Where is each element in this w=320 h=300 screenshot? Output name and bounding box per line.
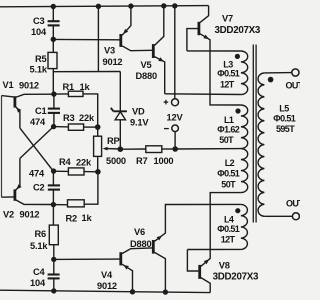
svg-text:5.1k: 5.1k <box>30 65 48 75</box>
wire: node F to V4 base <box>54 258 120 260</box>
node: L5 phase dot <box>268 77 274 83</box>
svg-text:Φ0.51: Φ0.51 <box>217 169 239 179</box>
wire: node A to V3 base <box>53 38 119 40</box>
svg-text:5.1k: 5.1k <box>30 241 48 251</box>
svg-text:VD: VD <box>132 107 145 117</box>
svg-text:OUT: OUT <box>286 199 300 209</box>
capacitor C1 <box>48 94 60 127</box>
wire: L5 bottom lead <box>264 215 292 217</box>
terminal: battery + <box>172 99 179 106</box>
node H: R4/R2/RP junction <box>95 169 101 175</box>
wire: top rail tap to R5/VD line <box>97 6 99 71</box>
node G: R1/R3/RP junction <box>95 124 101 130</box>
wire: battery minus lead <box>174 132 176 149</box>
svg-text:104: 104 <box>31 27 47 37</box>
node: junction dots on bottom rail <box>51 288 168 295</box>
svg-text:Φ0.51: Φ0.51 <box>273 113 295 123</box>
svg-text:5000: 5000 <box>106 156 126 166</box>
wire: battery plus lead from top rail <box>174 6 176 99</box>
resistor R7 <box>120 146 175 153</box>
node D: C2 top / R4 junction <box>51 168 56 173</box>
node B: V1 collector / C1 / R1 junction <box>51 91 56 96</box>
node: junction dots on top rail <box>51 3 178 9</box>
svg-text:V1: V1 <box>3 80 14 90</box>
node E: V2 collector / R2 / R6 junction <box>51 202 56 207</box>
winding L3 <box>241 51 248 95</box>
svg-text:9012: 9012 <box>103 57 123 67</box>
svg-text:474: 474 <box>30 117 46 127</box>
svg-text:RP: RP <box>107 136 120 146</box>
wire: V8 base loop / L4 bottom line <box>187 248 241 250</box>
svg-text:3DD207X3: 3DD207X3 <box>213 272 259 283</box>
svg-text:V8: V8 <box>219 260 230 270</box>
node A: C3 bottom / V3 base junction <box>51 37 56 42</box>
wire: supply rail to L3 bottom <box>165 93 241 96</box>
svg-text:C4: C4 <box>33 267 46 277</box>
wire: R5 node to zener VD <box>53 71 120 73</box>
svg-text:V7: V7 <box>222 14 233 24</box>
resistor R3 <box>54 124 98 130</box>
transistor V6 <box>153 204 241 292</box>
resistor R6 <box>49 205 58 260</box>
node: L1 phase dot <box>235 108 240 113</box>
svg-text:D880: D880 <box>130 239 151 249</box>
transistor V2 <box>2 158 53 204</box>
svg-text:OUT: OUT <box>286 80 301 90</box>
transistor V8 <box>187 193 241 293</box>
wire: centre tap to L1/L2 junction <box>175 148 241 150</box>
transistor V3 <box>121 6 152 51</box>
svg-text:L4: L4 <box>224 214 234 224</box>
svg-text:R5: R5 <box>35 54 47 64</box>
svg-text:50T: 50T <box>221 179 236 189</box>
svg-text:474: 474 <box>29 169 45 179</box>
svg-text:R1: R1 <box>63 82 75 92</box>
node: L3 phase dot <box>235 54 240 59</box>
terminal: battery - <box>172 125 179 132</box>
wire: left base bus <box>1 96 3 198</box>
capacitor C3 <box>48 7 60 40</box>
wire: top supply rail <box>0 6 209 7</box>
winding L5 <box>258 73 264 216</box>
resistor R4 <box>54 168 98 175</box>
svg-text:R2: R2 <box>66 214 78 224</box>
svg-text:3DD207X3: 3DD207X3 <box>215 25 261 36</box>
symbol: minus sign <box>164 128 169 130</box>
svg-text:9012: 9012 <box>19 81 39 91</box>
wire: cross-coupling slant V2 emitter to node C <box>20 127 53 158</box>
svg-text:50T: 50T <box>219 135 234 145</box>
resistor R1 <box>54 91 98 127</box>
svg-text:9012: 9012 <box>20 210 40 220</box>
wire: cross-coupling slant V1 emitter to node D <box>20 128 53 171</box>
transistor V1 <box>2 94 53 128</box>
svg-text:C3: C3 <box>33 16 45 26</box>
svg-text:V4: V4 <box>101 270 113 280</box>
node J: R7 / battery minus / centre-tap junction <box>172 146 178 152</box>
svg-text:C1: C1 <box>35 106 47 116</box>
svg-text:1000: 1000 <box>154 156 174 166</box>
svg-text:595T: 595T <box>276 124 295 134</box>
svg-text:9.1V: 9.1V <box>130 118 149 128</box>
svg-text:104: 104 <box>30 278 46 288</box>
winding L2 <box>241 149 248 193</box>
svg-text:V3: V3 <box>104 46 115 56</box>
svg-text:Φ0.51: Φ0.51 <box>217 69 239 79</box>
svg-text:R4: R4 <box>59 157 72 167</box>
winding L1 <box>241 105 248 149</box>
terminal: OUT top <box>292 69 299 76</box>
svg-text:V6: V6 <box>134 227 145 237</box>
svg-text:L5: L5 <box>279 103 289 113</box>
zener diode VD <box>111 72 127 150</box>
svg-text:V5: V5 <box>141 60 152 70</box>
svg-text:D880: D880 <box>136 71 157 81</box>
transistor V5 <box>153 6 164 94</box>
svg-text:22k: 22k <box>76 158 92 168</box>
svg-text:R7: R7 <box>136 156 148 166</box>
node F: R6 / C4 / V4 base junction <box>51 257 56 262</box>
transistor V7 <box>187 6 241 105</box>
svg-text:Φ0.51: Φ0.51 <box>217 224 239 234</box>
transformer core <box>253 45 256 223</box>
node I: VD / RP wiper / R7 junction <box>118 146 124 152</box>
svg-text:1k: 1k <box>80 82 91 92</box>
svg-text:R6: R6 <box>35 229 47 239</box>
svg-text:9012: 9012 <box>97 281 117 291</box>
node C: C1 bottom / R3 junction <box>51 124 56 129</box>
wire: bottom rail <box>0 290 210 292</box>
svg-text:L2: L2 <box>225 158 235 168</box>
svg-text:12T: 12T <box>221 235 236 245</box>
node: L4 phase dot <box>235 208 240 213</box>
symbol: plus sign <box>164 100 169 105</box>
terminal: OUT bottom <box>292 213 299 220</box>
svg-text:22k: 22k <box>79 113 95 123</box>
svg-text:1k: 1k <box>82 213 93 223</box>
resistor R2 <box>53 172 98 207</box>
svg-text:12V: 12V <box>167 113 184 123</box>
wire: L5 top lead <box>264 72 291 74</box>
capacitor C4 <box>48 259 60 291</box>
potentiometer RP <box>94 127 121 172</box>
svg-text:R3: R3 <box>63 113 75 123</box>
capacitor C2 <box>48 171 60 205</box>
resistor R5 <box>48 39 57 94</box>
svg-text:12T: 12T <box>220 79 235 89</box>
svg-text:Φ1.62: Φ1.62 <box>217 124 239 134</box>
wire: V7 base loop to L3 top <box>187 50 241 52</box>
svg-text:V2: V2 <box>3 210 14 220</box>
winding L4 <box>241 204 248 249</box>
transistor V4 <box>121 248 152 292</box>
svg-text:C2: C2 <box>33 183 45 193</box>
